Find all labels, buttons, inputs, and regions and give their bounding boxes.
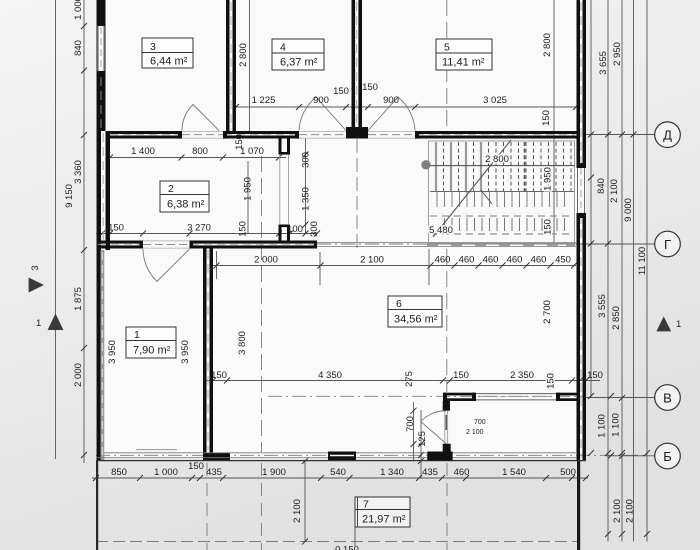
right exterior wall upper segment <box>577 0 581 168</box>
svg-text:7: 7 <box>363 499 369 511</box>
svg-text:150: 150 <box>333 86 349 97</box>
left exterior wall top block with window hole <box>97 0 106 75</box>
svg-text:6,37 m²: 6,37 m² <box>280 57 318 69</box>
room6 dim row <box>211 370 603 381</box>
svg-text:7,90 m²: 7,90 m² <box>133 345 171 357</box>
Б mid pier <box>328 452 356 461</box>
svg-text:435: 435 <box>206 467 222 478</box>
right wall window (y168-213) <box>577 168 579 213</box>
svg-text:2 100: 2 100 <box>625 499 636 523</box>
section triangle 3 (right-pointing) <box>29 278 44 293</box>
svg-text:540: 540 <box>330 467 346 478</box>
stair upper flight dashed treads <box>444 142 489 192</box>
room6 dim line y=380.5 <box>206 380 600 382</box>
nook door jamb lines <box>444 411 446 444</box>
nook ticks on x622 <box>619 395 625 459</box>
section triangle right margin <box>656 316 671 331</box>
svg-text:Б: Б <box>663 449 672 464</box>
svg-text:150: 150 <box>587 370 603 381</box>
svg-text:1: 1 <box>676 319 681 330</box>
right chain line x=607 <box>607 0 609 542</box>
svg-text:3: 3 <box>30 265 41 270</box>
svg-text:2 100: 2 100 <box>612 499 623 523</box>
stair chain line x=554 <box>553 0 555 244</box>
svg-text:500: 500 <box>560 467 576 478</box>
room2 top dim texts <box>131 146 264 157</box>
bottom dim line y=478 <box>92 477 588 479</box>
svg-text:5 480: 5 480 <box>429 225 453 236</box>
svg-text:1 350: 1 350 <box>301 187 312 211</box>
wall Г segment east <box>190 241 318 244</box>
svg-text:435: 435 <box>422 467 438 478</box>
svg-text:840: 840 <box>73 40 84 56</box>
room 3 label box <box>142 38 193 68</box>
svg-text:460: 460 <box>507 255 523 266</box>
svg-text:3 555: 3 555 <box>597 294 608 318</box>
section triangle 1 (up-pointing) <box>48 314 64 331</box>
svg-text:4 350: 4 350 <box>318 370 342 381</box>
svg-text:840: 840 <box>596 178 607 194</box>
room 2 label box <box>160 181 209 212</box>
stair direction line <box>433 140 511 237</box>
svg-text:150: 150 <box>541 110 552 126</box>
right chain line x=622 <box>621 0 623 542</box>
ticks bottom chain <box>93 475 589 481</box>
svg-text:700: 700 <box>405 416 416 432</box>
svg-text:1 100: 1 100 <box>597 414 608 438</box>
axis Б leader <box>606 455 655 457</box>
ticks y265.5 <box>214 263 578 269</box>
svg-text:150: 150 <box>362 82 378 93</box>
axis Г leader <box>576 243 655 245</box>
svg-text:2 800: 2 800 <box>238 43 249 67</box>
room 4 label box <box>272 39 324 70</box>
divider wall rooms 4/5 <box>352 0 356 131</box>
stair lower flight dashed horizontals <box>430 215 572 217</box>
Б right L pier bar <box>443 444 451 453</box>
svg-text:2 100: 2 100 <box>609 179 620 203</box>
left wall double line upper (rooms 2-3) <box>97 75 106 131</box>
svg-text:3 950: 3 950 <box>180 340 191 364</box>
ticks right chains <box>588 132 650 538</box>
svg-text:2 100: 2 100 <box>466 429 484 436</box>
room2 top dim line y=157.5 <box>108 157 286 159</box>
left wall window glazing lines <box>97 26 99 71</box>
wall В window <box>476 393 556 395</box>
axis В leader <box>586 397 655 399</box>
svg-text:150: 150 <box>211 370 227 381</box>
svg-text:2 950: 2 950 <box>612 42 623 66</box>
svg-text:150: 150 <box>238 221 249 237</box>
grid circle В <box>655 385 681 411</box>
left chain line x=84 <box>83 0 85 463</box>
nook chain x=421 <box>420 410 422 478</box>
svg-text:2 000: 2 000 <box>254 255 278 266</box>
dim line y=265.5 under Г <box>213 265 576 267</box>
svg-text:2 350: 2 350 <box>510 370 534 381</box>
ticks y380.5 <box>210 378 589 384</box>
building interior <box>96 0 586 461</box>
top dim row texts <box>252 82 507 106</box>
door room5 <box>368 97 415 131</box>
grid circle Б <box>655 443 681 469</box>
wall Г segment west <box>97 241 144 244</box>
svg-text:460: 460 <box>483 255 499 266</box>
stair landing dashed treads right <box>496 142 571 192</box>
stair length dim line 2800 <box>428 165 575 167</box>
vertical axis x=261.5 below terrace <box>261 463 263 550</box>
svg-text:1 225: 1 225 <box>252 95 276 106</box>
svg-text:6,44 m²: 6,44 m² <box>150 56 188 68</box>
svg-text:0.150: 0.150 <box>335 545 359 550</box>
stair outline <box>429 141 575 244</box>
room2 extension line x=248 <box>247 161 249 233</box>
wall Г jamb caps <box>140 241 144 249</box>
svg-text:6: 6 <box>396 298 402 310</box>
vertical axis x=357 hall <box>356 139 358 248</box>
svg-text:850: 850 <box>111 467 127 478</box>
svg-text:150: 150 <box>543 219 554 235</box>
svg-text:4: 4 <box>280 42 286 54</box>
svg-text:1 875: 1 875 <box>73 287 84 311</box>
svg-text:2 850: 2 850 <box>611 306 622 330</box>
svg-text:Г: Г <box>664 237 671 252</box>
Б edge sill lines <box>104 452 576 454</box>
bottom dim row <box>111 461 576 478</box>
svg-text:900: 900 <box>383 95 399 106</box>
svg-text:2 700: 2 700 <box>542 300 553 324</box>
svg-text:1 400: 1 400 <box>131 146 155 157</box>
svg-text:Д: Д <box>663 128 672 143</box>
svg-text:100: 100 <box>287 224 303 235</box>
room2 bottom dim line y=233.5 <box>96 233 317 235</box>
wall H1 segment B <box>223 131 299 134</box>
wall axis dash in door3 opening <box>182 134 223 136</box>
svg-text:460: 460 <box>531 255 547 266</box>
stair bottom sill lines <box>317 241 576 243</box>
vertical axis x=207 terrace <box>206 463 208 550</box>
axis Б dashed line <box>96 454 645 456</box>
svg-text:2 800: 2 800 <box>485 154 509 165</box>
hall chain line x=305.5 <box>305 138 307 233</box>
svg-text:21,97 m²: 21,97 m² <box>362 514 406 526</box>
ticks hall chain x305.5 <box>303 152 309 228</box>
top dim line y=107 <box>236 106 576 108</box>
Б threshold step line <box>136 449 177 451</box>
svg-text:460: 460 <box>454 467 470 478</box>
stair bottom gray blocks <box>427 242 575 247</box>
svg-text:150: 150 <box>108 223 124 234</box>
wall В segment east <box>556 393 577 396</box>
svg-text:1: 1 <box>134 329 140 341</box>
svg-text:2 100: 2 100 <box>292 499 303 523</box>
left wall edge below terrace line <box>96 461 98 550</box>
svg-text:125: 125 <box>417 431 428 447</box>
axis В dashed line <box>268 395 586 397</box>
axis Д horizontal leader <box>586 134 655 136</box>
terrace chain line x=305 <box>304 461 306 542</box>
door room1 <box>143 249 190 282</box>
room 5 label box <box>436 39 492 70</box>
ticks nook chains <box>302 408 424 545</box>
svg-text:300: 300 <box>309 221 320 237</box>
svg-text:34,56 m²: 34,56 m² <box>394 314 438 326</box>
right wall lower segment <box>577 213 581 460</box>
divider3/4 chain line x=249.5 <box>249 0 251 131</box>
divider wall foot at Б <box>203 453 230 461</box>
svg-text:9 000: 9 000 <box>623 198 634 222</box>
stair upper flight solid treads <box>436 142 481 192</box>
svg-text:150: 150 <box>453 370 469 381</box>
svg-text:300: 300 <box>301 152 312 168</box>
stair lower flight dashed treads <box>445 218 565 231</box>
terrace bottom dashed line <box>96 541 577 543</box>
hall passage jamb lines <box>279 155 281 224</box>
svg-text:6,38 m²: 6,38 m² <box>167 199 205 211</box>
ticks room2 top <box>107 155 282 161</box>
room7 leader x=355 <box>354 527 356 546</box>
stub wall room2/hall top <box>279 139 282 155</box>
wall В segment west <box>443 393 476 396</box>
column circle <box>421 160 430 169</box>
svg-text:5: 5 <box>444 42 450 54</box>
ticks top chain <box>233 104 579 110</box>
svg-text:2 000: 2 000 <box>73 363 84 387</box>
svg-text:150: 150 <box>546 373 557 389</box>
room 1 label box <box>126 327 176 358</box>
svg-text:150: 150 <box>188 461 204 472</box>
svg-text:2: 2 <box>168 183 174 195</box>
svg-text:11,41 m²: 11,41 m² <box>442 57 485 69</box>
svg-text:В: В <box>663 391 672 406</box>
svg-text:460: 460 <box>435 255 451 266</box>
svg-text:1 950: 1 950 <box>543 167 554 191</box>
vertical axis x=447 terrace <box>446 463 448 550</box>
left wall lower (room 1) <box>97 250 101 461</box>
svg-text:3: 3 <box>150 41 156 53</box>
svg-text:900: 900 <box>313 95 329 106</box>
svg-text:9 150: 9 150 <box>64 184 75 208</box>
vertical axis x=446.8 room6 <box>446 249 448 392</box>
nook chain x=413.5 <box>413 402 415 461</box>
svg-text:1 000: 1 000 <box>73 0 84 20</box>
svg-text:450: 450 <box>555 255 571 266</box>
svg-text:1: 1 <box>36 318 41 329</box>
room 6 label box <box>388 296 442 327</box>
Б right L pier foot <box>427 452 452 461</box>
door opening threshold lines <box>143 131 415 248</box>
svg-text:1 900: 1 900 <box>262 467 286 478</box>
wall axis dash in door5 opening <box>368 134 415 136</box>
right chain line x=591 <box>590 0 592 398</box>
room2 bottom dim texts <box>108 223 303 236</box>
divider wall rooms 1/6 <box>203 249 207 453</box>
rotated dims right margin <box>596 42 648 523</box>
room 7 label box <box>355 497 410 527</box>
door room4 <box>299 97 346 131</box>
wall H1 under rooms 3-4-5: segment A <box>108 131 182 134</box>
svg-text:460: 460 <box>459 255 475 266</box>
divider wall rooms 3/4 <box>226 0 230 131</box>
under Г dim texts <box>254 255 571 266</box>
door nook 700 <box>421 411 446 444</box>
stub wall room2/hall bottom <box>279 225 282 242</box>
svg-text:150: 150 <box>234 134 245 150</box>
wall axis dash in door1 opening <box>143 243 190 245</box>
vertical axis x=261.5 dashed <box>261 156 263 452</box>
svg-text:2 100: 2 100 <box>360 255 384 266</box>
right chain line x=641 <box>646 0 648 542</box>
svg-text:3 950: 3 950 <box>107 340 118 364</box>
ticks left chain x=84 <box>81 23 87 458</box>
svg-text:1 340: 1 340 <box>380 467 404 478</box>
wall axis dash in door4 opening <box>299 134 346 136</box>
grid circle Д <box>655 122 681 148</box>
svg-text:3 360: 3 360 <box>73 160 84 184</box>
axis Г dashed line <box>317 243 576 245</box>
svg-text:3 270: 3 270 <box>187 223 211 234</box>
svg-text:800: 800 <box>192 146 208 157</box>
left outer chain line x=55.5 <box>55 0 57 459</box>
stair landing split dashed <box>524 142 526 191</box>
right wall edge below terrace <box>577 460 580 550</box>
svg-text:3 800: 3 800 <box>237 331 248 355</box>
grid circle Г <box>655 231 681 257</box>
rotated dim texts left margin <box>30 0 84 387</box>
svg-text:3 025: 3 025 <box>483 95 507 106</box>
svg-text:700: 700 <box>474 419 486 426</box>
Б edge bottom face line <box>96 460 586 462</box>
door jamb caps H1 <box>178 131 182 139</box>
right wall window caps <box>577 163 587 168</box>
svg-text:1 950: 1 950 <box>243 177 254 201</box>
wall H1 pier between doors 4 and 5 <box>346 127 368 139</box>
svg-text:1 540: 1 540 <box>502 467 526 478</box>
nook door stub below В <box>443 401 450 411</box>
wall H1 segment C <box>415 131 577 134</box>
stair comb row <box>430 191 574 193</box>
ticks room2 bottom <box>99 231 320 237</box>
svg-text:275: 275 <box>404 371 415 387</box>
extension stubs under Г dim row <box>216 251 218 279</box>
right chain line x=632 <box>633 0 635 542</box>
svg-text:3 655: 3 655 <box>598 51 609 75</box>
svg-text:1 000: 1 000 <box>154 467 178 478</box>
svg-text:1 100: 1 100 <box>611 413 622 437</box>
svg-text:2 800: 2 800 <box>542 33 553 57</box>
door room3: hinge right, arc + leaf <box>182 105 219 131</box>
svg-text:11 100: 11 100 <box>637 247 648 275</box>
vertical axis x=446.8 room5 <box>446 0 448 131</box>
